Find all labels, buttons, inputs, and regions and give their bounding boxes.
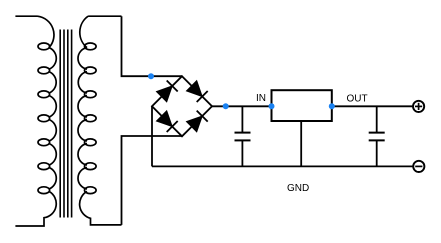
ground rail wire bbox=[152, 165, 413, 167]
bridge rectifier BR1 diamond bbox=[152, 76, 212, 136]
wire secondary top to bridge AC1 bbox=[122, 16, 183, 76]
svg-text:IN: IN bbox=[256, 93, 266, 104]
diode D1 (minus to AC1, top-left) bbox=[157, 86, 173, 102]
capacitor C1 plates bbox=[235, 132, 251, 134]
wire bridge plus to regulator IN bbox=[212, 105, 272, 107]
wire bridge minus to ground rail bbox=[151, 106, 153, 166]
node dot bridge plus pin bbox=[223, 103, 229, 109]
svg-text:OUT: OUT bbox=[347, 93, 368, 104]
capacitor C2 plates bbox=[369, 132, 385, 134]
positive output terminal bbox=[413, 101, 424, 112]
capacitor C1 top lead bbox=[241, 106, 243, 132]
svg-text:GND: GND bbox=[287, 183, 309, 194]
diode D3 (minus to AC2, bottom-left) bbox=[157, 111, 173, 127]
wire regulator OUT to plus terminal bbox=[332, 105, 413, 107]
negative output terminal bbox=[413, 161, 424, 172]
transformer T1 core bbox=[59, 30, 61, 218]
regulator GND pin wire bbox=[300, 121, 302, 166]
diode D4 (AC2 to plus, bottom-right) bbox=[187, 116, 203, 132]
node dot bridge AC1 pin bbox=[148, 73, 154, 79]
node dot regulator OUT pin bbox=[329, 103, 335, 109]
capacitor C1 bottom lead bbox=[241, 140, 243, 166]
transformer T1 secondary winding bbox=[78, 16, 122, 225]
capacitor C2 top lead bbox=[376, 106, 378, 132]
node dot regulator IN pin bbox=[269, 103, 275, 109]
voltage regulator U1 body bbox=[272, 90, 332, 121]
diode D2 (AC1 to plus, top-right) bbox=[187, 81, 203, 97]
wire secondary bottom to bridge AC2 bbox=[122, 136, 183, 225]
capacitor C2 bottom lead bbox=[376, 140, 378, 166]
transformer T1 primary winding bbox=[15, 16, 56, 226]
